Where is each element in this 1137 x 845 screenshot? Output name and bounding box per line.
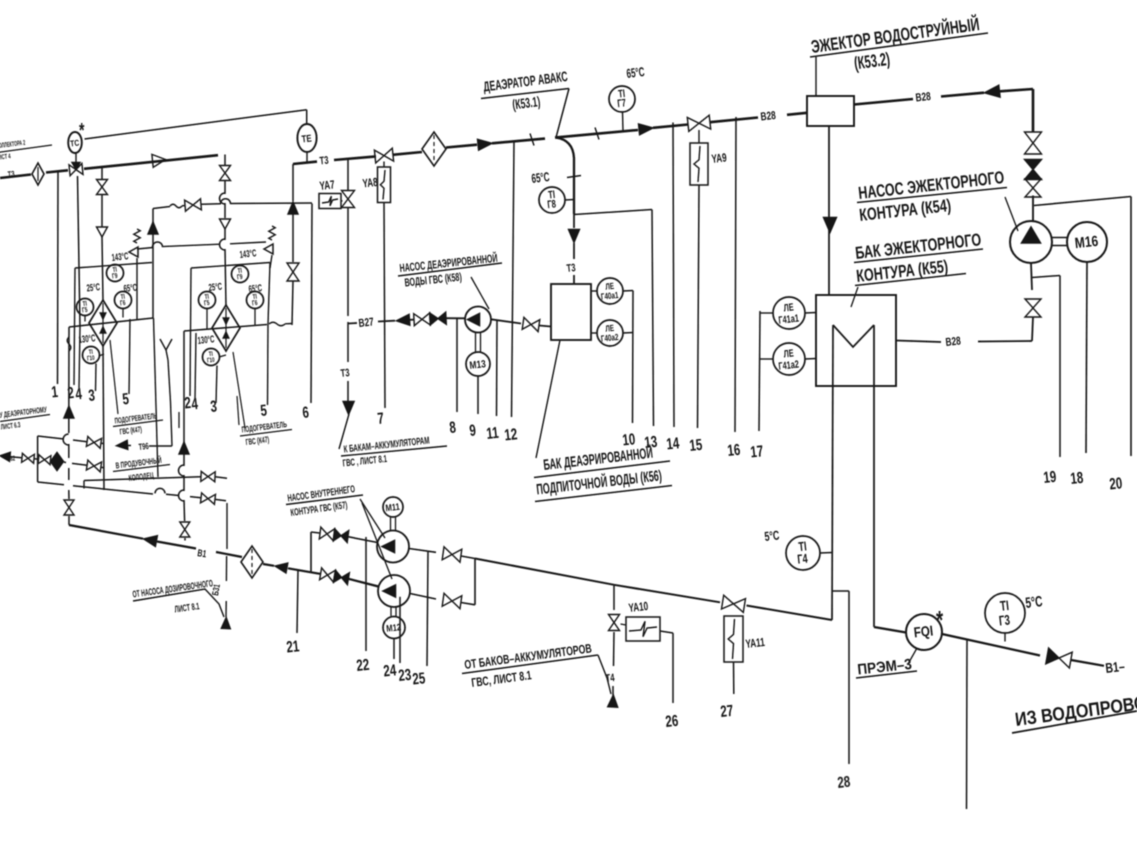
svg-text:YA10: YA10 <box>628 601 649 616</box>
svg-text:5°С: 5°С <box>764 529 780 545</box>
svg-text:130°С: 130°С <box>78 333 96 346</box>
svg-text:65°С: 65°С <box>531 170 551 186</box>
svg-text:25°С: 25°С <box>86 282 101 294</box>
svg-text:FQI: FQI <box>913 622 934 641</box>
svg-text:13: 13 <box>643 432 658 452</box>
svg-text:Г41а2: Г41а2 <box>778 358 800 372</box>
svg-text:М13: М13 <box>469 358 487 372</box>
svg-text:10: 10 <box>621 429 636 449</box>
svg-text:15: 15 <box>688 435 703 455</box>
svg-text:Г10: Г10 <box>87 355 95 363</box>
svg-text:143°С: 143°С <box>239 248 257 261</box>
svg-text:М16: М16 <box>1074 233 1099 252</box>
svg-text:25°С: 25°С <box>208 281 223 293</box>
svg-text:*: * <box>936 606 943 635</box>
svg-text:14: 14 <box>665 433 680 453</box>
svg-text:Г10: Г10 <box>207 357 215 365</box>
svg-text:Т3: Т3 <box>566 262 576 276</box>
svg-text:Г40а2: Г40а2 <box>600 332 619 344</box>
svg-text:Т96: Т96 <box>138 441 149 453</box>
svg-text:В27: В27 <box>358 316 375 330</box>
svg-text:*: * <box>79 118 85 141</box>
svg-text:20: 20 <box>1108 473 1123 493</box>
svg-text:21: 21 <box>285 636 300 656</box>
svg-text:Б31: Б31 <box>210 583 222 597</box>
svg-text:65°С: 65°С <box>123 282 138 294</box>
svg-text:В1–: В1– <box>1105 659 1126 677</box>
svg-text:65°С: 65°С <box>626 65 646 81</box>
svg-text:YA11: YA11 <box>745 637 766 652</box>
svg-text:25: 25 <box>411 668 426 688</box>
svg-text:Г7: Г7 <box>617 97 627 111</box>
svg-text:12: 12 <box>503 424 518 444</box>
svg-text:17: 17 <box>749 441 764 461</box>
svg-text:ТЕ: ТЕ <box>301 133 312 145</box>
svg-text:Г40а1: Г40а1 <box>600 290 619 302</box>
svg-text:YA7: YA7 <box>319 179 336 193</box>
svg-text:Г41а1: Г41а1 <box>778 312 800 326</box>
svg-text:М11: М11 <box>385 501 401 514</box>
svg-text:ТЗ: ТЗ <box>7 171 15 180</box>
svg-text:22: 22 <box>355 655 370 675</box>
svg-text:24: 24 <box>382 660 397 680</box>
svg-text:В28: В28 <box>760 110 777 124</box>
svg-text:5°С: 5°С <box>1024 592 1043 611</box>
svg-text:26: 26 <box>664 711 679 731</box>
svg-text:130°С: 130°С <box>197 334 215 347</box>
svg-text:YA8: YA8 <box>362 177 379 191</box>
svg-text:16: 16 <box>726 440 741 460</box>
svg-text:27: 27 <box>719 701 734 721</box>
svg-text:143°С: 143°С <box>111 251 129 264</box>
svg-text:Г8: Г8 <box>547 198 557 212</box>
svg-text:28: 28 <box>836 772 851 792</box>
svg-text:Т3: Т3 <box>340 367 350 381</box>
svg-text:65°С: 65°С <box>248 283 263 295</box>
svg-text:Г3: Г3 <box>998 612 1011 629</box>
svg-text:19: 19 <box>1042 467 1057 487</box>
svg-text:В28: В28 <box>945 335 962 349</box>
svg-text:23: 23 <box>397 665 412 685</box>
svg-text:18: 18 <box>1069 468 1084 488</box>
svg-text:В28: В28 <box>915 91 932 105</box>
svg-text:Т3: Т3 <box>319 154 329 168</box>
svg-text:YA9: YA9 <box>711 152 728 166</box>
svg-text:11: 11 <box>485 423 499 443</box>
